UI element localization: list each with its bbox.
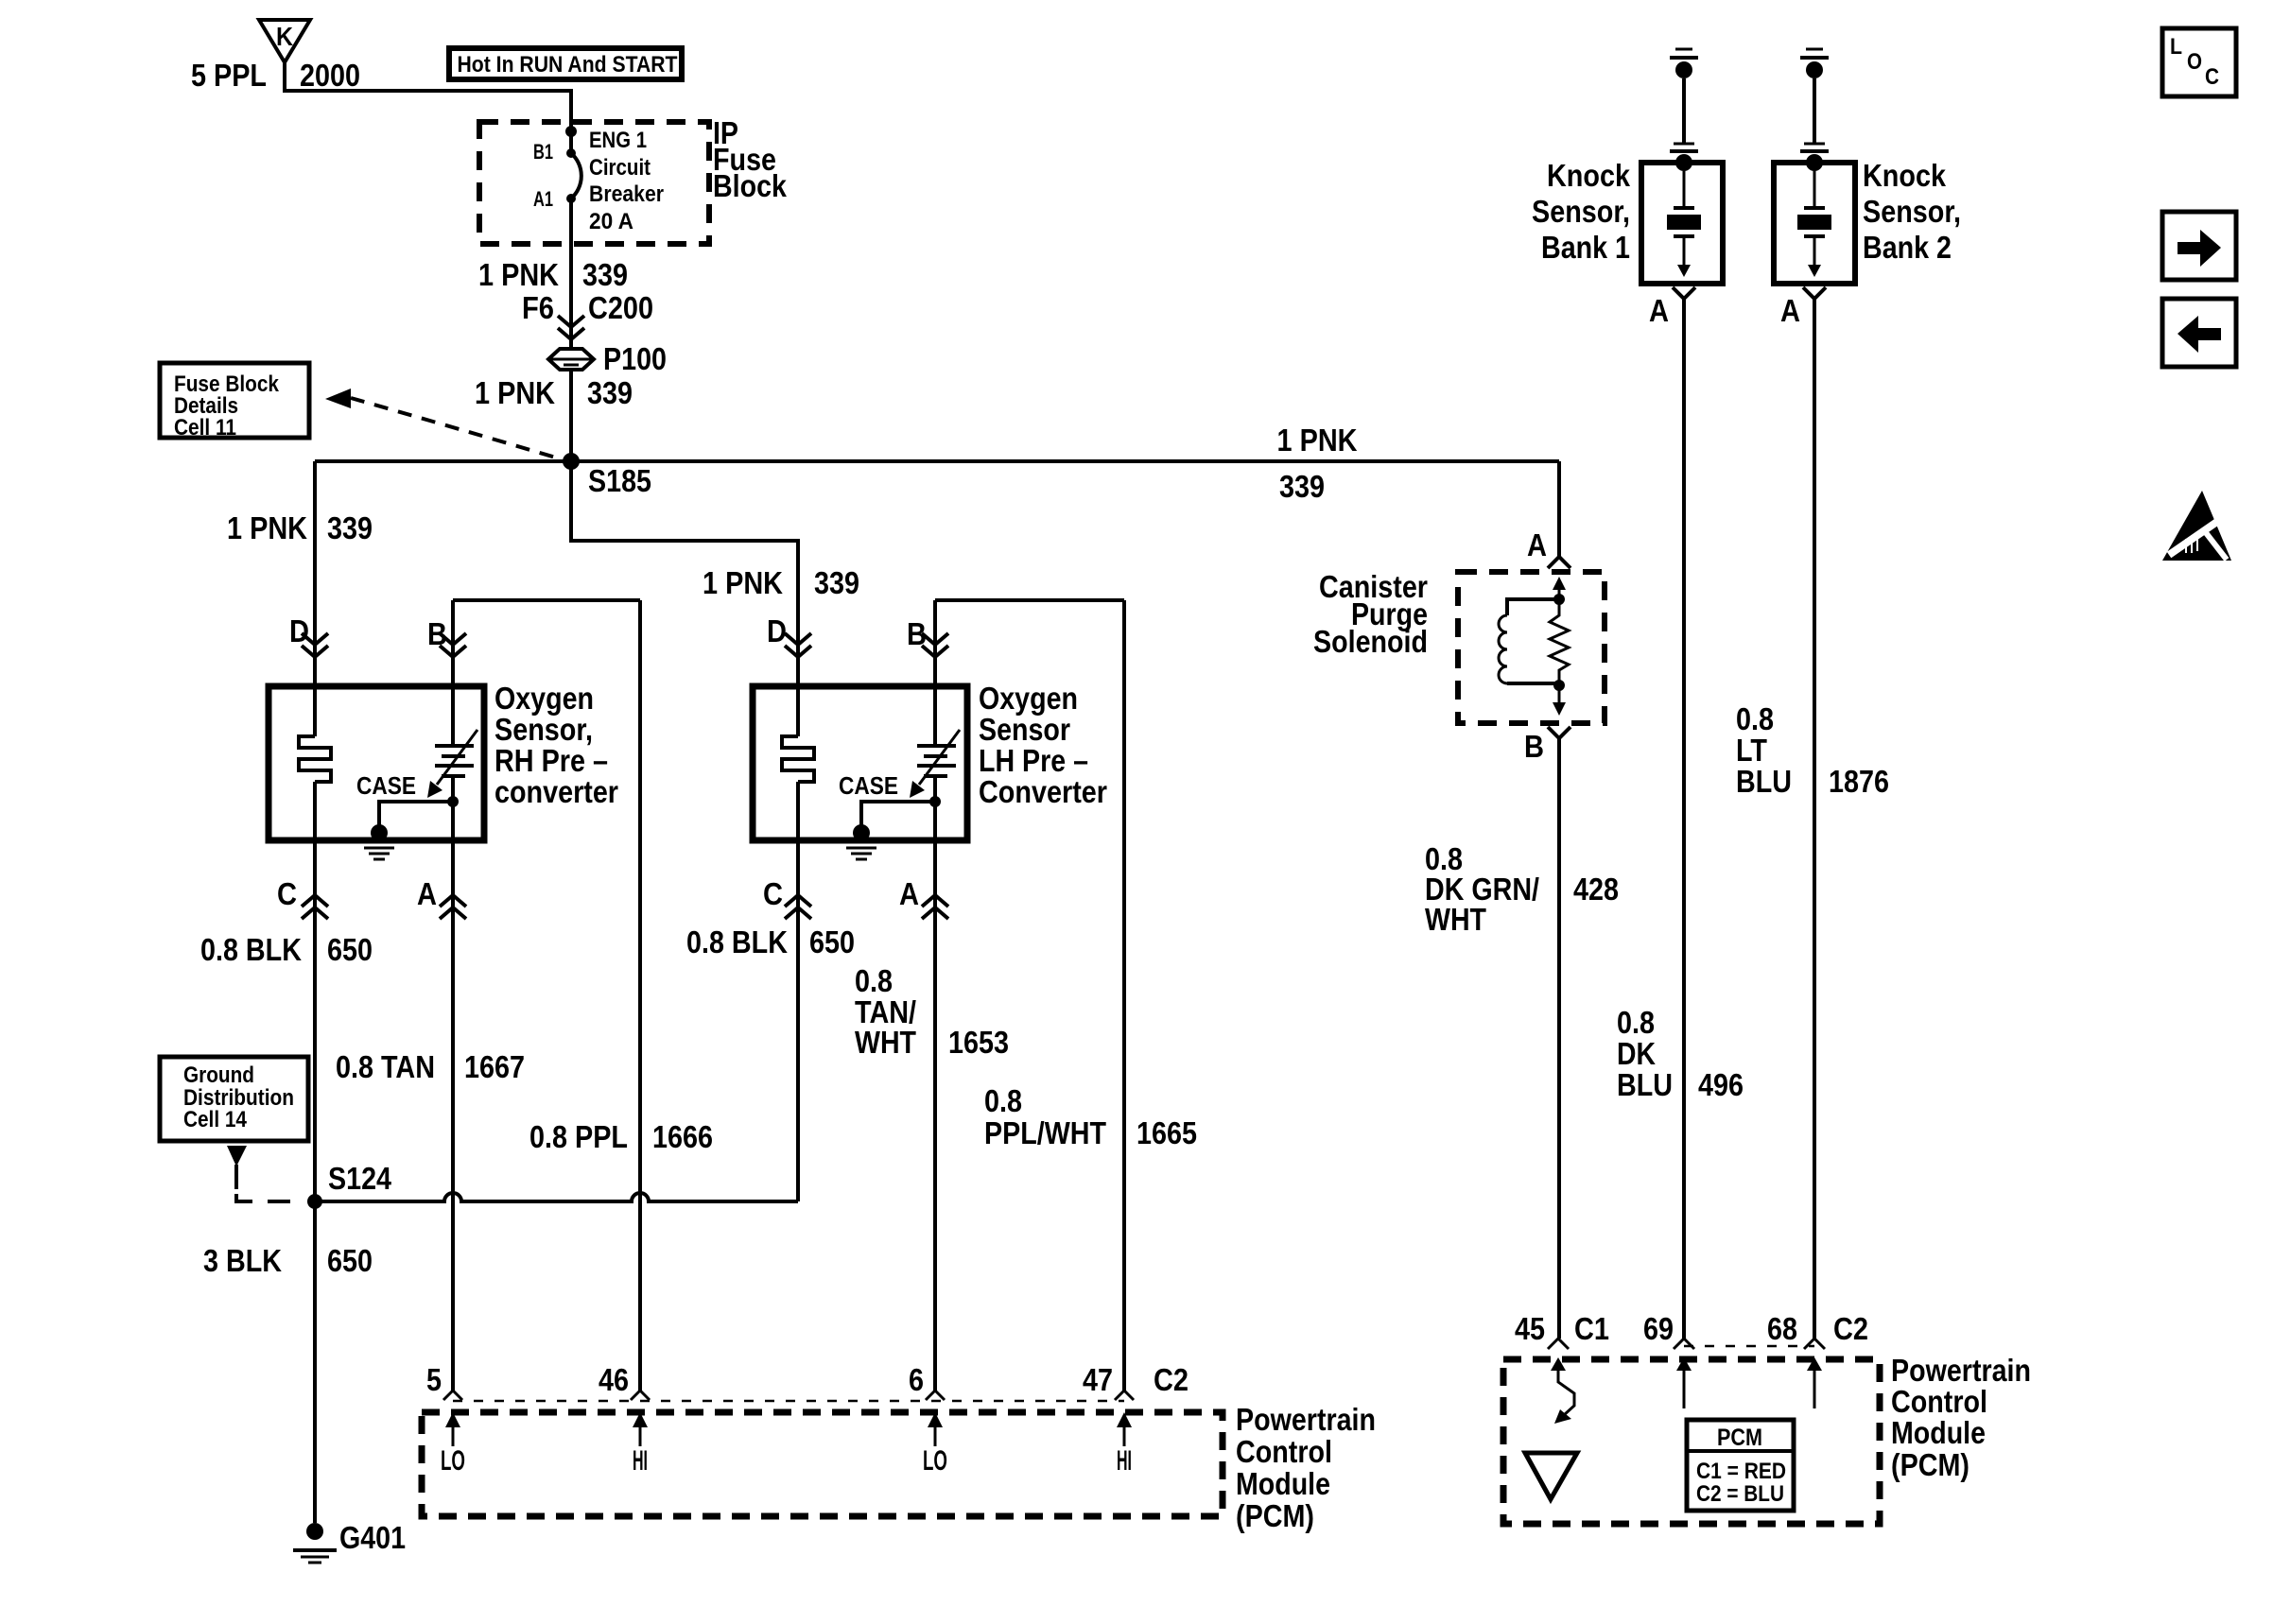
- wire knock sensor 2 to PCM pin 68 (0.8 LT BLU 1876): [1813, 299, 1816, 1339]
- node S185: [563, 453, 651, 498]
- svg-text:Control: Control: [1891, 1384, 1987, 1419]
- svg-text:F6: F6: [522, 290, 554, 325]
- svg-text:(PCM): (PCM): [1236, 1498, 1314, 1533]
- svg-text:5 PPL: 5 PPL: [191, 58, 267, 93]
- wire LH sensor C down to S124: [796, 840, 800, 1201]
- svg-text:428: 428: [1573, 872, 1619, 907]
- pin D connector (LH sensor): [767, 613, 811, 657]
- wire LH sensor B up/over to PCM pin 47 (0.8 PPL/WHT 1665): [935, 600, 1124, 1391]
- svg-text:P100: P100: [603, 341, 667, 376]
- wire ground to knock sensor 1 case: [1682, 78, 1686, 144]
- dashed reference arrow to Fuse Block Details: [325, 389, 565, 460]
- label 0.8 PPL 1666: [529, 1119, 713, 1154]
- svg-text:339: 339: [814, 565, 859, 600]
- Powertrain Control Module dashed box (left): [422, 1412, 1223, 1516]
- svg-text:46: 46: [599, 1362, 629, 1397]
- pin B connector (LH sensor): [907, 616, 948, 657]
- oxygen sensor RH pre-converter box: [269, 686, 484, 840]
- svg-text:1876: 1876: [1829, 764, 1889, 799]
- svg-text:1 PNK: 1 PNK: [703, 565, 783, 600]
- wire solenoid B down to PCM pin 45 (0.8 DK GRN/WHT 428): [1557, 738, 1561, 1339]
- svg-text:Circuit: Circuit: [589, 155, 651, 181]
- wire from K to fuse block: [285, 62, 571, 134]
- svg-text:0.8: 0.8: [1617, 1005, 1655, 1040]
- pin 46 connector at PCM: [599, 1362, 650, 1400]
- svg-text:650: 650: [327, 932, 373, 967]
- label Oxygen Sensor LH Pre-Converter: [979, 681, 1107, 809]
- wire left branch down to RH sensor D: [313, 461, 317, 686]
- label Powertrain Control Module (PCM) left: [1236, 1402, 1376, 1533]
- pin D connector (RH sensor): [289, 613, 328, 657]
- svg-text:Bank 2: Bank 2: [1863, 230, 1952, 265]
- svg-text:0.8 TAN: 0.8 TAN: [336, 1049, 435, 1084]
- svg-text:Hot In RUN And START: Hot In RUN And START: [458, 52, 678, 78]
- label 0.8 BLK 650 (LH): [686, 924, 855, 959]
- label 1 PNK 339 (left branch): [227, 510, 373, 545]
- label 5 PPL 2000: [191, 58, 360, 93]
- heater element (RH sensor): [299, 686, 331, 840]
- svg-text:2000: 2000: [300, 58, 360, 93]
- svg-text:A: A: [1527, 527, 1547, 562]
- svg-text:Oxygen: Oxygen: [495, 681, 594, 716]
- svg-text:Sensor,: Sensor,: [495, 712, 593, 747]
- svg-text:B: B: [427, 616, 447, 651]
- svg-text:G401: G401: [339, 1520, 406, 1555]
- IP fuse block dashed box: [479, 122, 709, 244]
- svg-text:0.8: 0.8: [855, 963, 893, 998]
- power source triangle K (circuit 2000): [259, 20, 310, 62]
- knock sensor 2 piezo element: [1797, 171, 1831, 277]
- connector C2 dashed line (left PCM): [453, 1362, 1189, 1401]
- svg-text:45: 45: [1515, 1311, 1545, 1346]
- svg-text:Powertrain: Powertrain: [1236, 1402, 1376, 1437]
- svg-text:0.8: 0.8: [984, 1083, 1022, 1118]
- svg-text:K: K: [276, 22, 293, 51]
- svg-text:PCM: PCM: [1717, 1425, 1762, 1451]
- pin A connector (knock sensor 1): [1649, 287, 1695, 328]
- oxygen sensor LH pre-converter box: [753, 686, 967, 840]
- pin 5 connector at PCM: [426, 1362, 462, 1400]
- svg-text:A: A: [417, 876, 437, 911]
- label 3 BLK 650: [203, 1243, 373, 1278]
- PCM input arrow HI (pin 47): [1117, 1412, 1132, 1477]
- svg-text:339: 339: [327, 510, 373, 545]
- svg-text:47: 47: [1083, 1362, 1113, 1397]
- svg-text:1653: 1653: [948, 1025, 1009, 1060]
- svg-text:3 BLK: 3 BLK: [203, 1243, 282, 1278]
- wire RH sensor B up/over to PCM pin 46 (0.8 PPL 1666): [453, 600, 640, 1391]
- svg-text:1 PNK: 1 PNK: [1277, 423, 1358, 458]
- knock sensor 2 case entry: [1800, 144, 1829, 171]
- svg-text:Converter: Converter: [979, 774, 1107, 809]
- label 1 PNK 339 (right run to solenoid): [1277, 423, 1358, 504]
- wire ground to knock sensor 2 case: [1813, 78, 1816, 144]
- svg-text:339: 339: [582, 257, 628, 292]
- PCM connector legend box: [1687, 1420, 1794, 1511]
- wire RH sensor C down to S124 and G401: [313, 840, 317, 1523]
- svg-text:A: A: [899, 876, 919, 911]
- svg-text:PPL/WHT: PPL/WHT: [984, 1115, 1106, 1150]
- svg-text:Oxygen: Oxygen: [979, 681, 1078, 716]
- svg-text:339: 339: [1279, 469, 1325, 504]
- svg-text:C2: C2: [1154, 1362, 1189, 1397]
- Ground Distribution Cell 14 box: [160, 1057, 308, 1141]
- svg-text:C: C: [2205, 64, 2219, 90]
- pin labels B1 A1: [533, 140, 553, 211]
- pin C connector (LH sensor): [763, 876, 811, 919]
- svg-text:650: 650: [327, 1243, 373, 1278]
- PCM input arrow (pin 68): [1807, 1357, 1822, 1408]
- svg-text:A: A: [1649, 293, 1669, 328]
- CASE connection and internal ground (LH sensor): [839, 771, 941, 859]
- canister purge solenoid dashed box: [1458, 572, 1605, 723]
- svg-text:0.8 BLK: 0.8 BLK: [686, 924, 788, 959]
- node: solenoid bottom junction: [1553, 680, 1565, 691]
- svg-text:Ground: Ground: [183, 1063, 254, 1088]
- svg-text:1 PNK: 1 PNK: [475, 375, 555, 410]
- svg-text:(PCM): (PCM): [1891, 1447, 1969, 1482]
- wire PNK bus down to canister purge solenoid A: [1557, 461, 1561, 557]
- label 0.8 TAN/WHT 1653: [855, 963, 1009, 1060]
- label Canister Purge Solenoid: [1313, 569, 1428, 659]
- wire LH sensor A down to PCM pin 6 (0.8 TAN/WHT 1653): [933, 840, 937, 1391]
- pin 6 connector at PCM: [909, 1362, 945, 1400]
- svg-text:0.8 PPL: 0.8 PPL: [529, 1119, 628, 1154]
- svg-text:Cell 11: Cell 11: [174, 415, 236, 441]
- pin B connector (solenoid): [1524, 727, 1570, 764]
- svg-text:LO: LO: [441, 1445, 465, 1477]
- circuit breaker ENG 1 20 A: [566, 148, 581, 203]
- label 0.8 TAN 1667: [336, 1049, 525, 1084]
- node S124: [307, 1161, 392, 1209]
- svg-text:68: 68: [1767, 1311, 1797, 1346]
- svg-text:1665: 1665: [1136, 1115, 1197, 1150]
- svg-text:CASE: CASE: [839, 771, 898, 800]
- label Powertrain Control Module (PCM) right: [1891, 1353, 2031, 1482]
- svg-text:Module: Module: [1891, 1415, 1986, 1450]
- solenoid pin arrow (top): [1553, 577, 1566, 599]
- solenoid pin arrow (bottom): [1553, 685, 1566, 716]
- svg-text:Sensor: Sensor: [979, 712, 1070, 747]
- Powertrain Control Module dashed box (right): [1503, 1359, 1880, 1524]
- svg-text:LH Pre –: LH Pre –: [979, 743, 1088, 778]
- svg-text:Control: Control: [1236, 1434, 1332, 1469]
- svg-text:C: C: [763, 876, 783, 911]
- svg-text:LT: LT: [1736, 733, 1767, 768]
- svg-text:C1 = RED: C1 = RED: [1696, 1459, 1786, 1484]
- page-back arrow box: [2162, 299, 2236, 367]
- svg-text:5: 5: [426, 1362, 442, 1397]
- svg-text:Cell 14: Cell 14: [183, 1107, 248, 1132]
- svg-text:HI: HI: [633, 1445, 648, 1477]
- svg-text:D: D: [767, 613, 787, 648]
- svg-text:ENG 1: ENG 1: [589, 128, 647, 153]
- svg-text:B1: B1: [533, 140, 553, 164]
- label 0.8 DK GRN/WHT 428: [1425, 841, 1619, 937]
- svg-text:Solenoid: Solenoid: [1313, 624, 1428, 659]
- PCM driver output triangle: [1525, 1453, 1577, 1499]
- pin 45 connector at PCM (C1): [1515, 1311, 1609, 1349]
- wire RH sensor A down to PCM pin 5 (0.8 TAN 1667): [451, 840, 455, 1391]
- pin 68 connector at PCM (C2): [1767, 1311, 1868, 1349]
- svg-text:C200: C200: [588, 290, 653, 325]
- svg-text:WHT: WHT: [1425, 902, 1486, 937]
- svg-text:1667: 1667: [464, 1049, 525, 1084]
- svg-text:C2 = BLU: C2 = BLU: [1696, 1481, 1784, 1507]
- label 1 PNK 339 (below P100): [475, 375, 633, 410]
- ground G401: [293, 1520, 406, 1563]
- label 0.8 LT BLU 1876: [1736, 701, 1889, 799]
- svg-text:L: L: [2170, 34, 2182, 60]
- svg-text:1 PNK: 1 PNK: [227, 510, 307, 545]
- PCM pin 45 arrow and driver switch: [1551, 1357, 1574, 1424]
- pin 47 connector at PCM: [1083, 1362, 1134, 1400]
- svg-text:HI: HI: [1117, 1445, 1132, 1477]
- knock sensor 1 case entry: [1670, 144, 1698, 171]
- pin A connector (RH sensor): [417, 876, 466, 919]
- svg-text:6: 6: [909, 1362, 924, 1397]
- pin A connector (knock sensor 2): [1780, 287, 1826, 328]
- label Oxygen Sensor, RH Pre-converter: [495, 681, 618, 809]
- svg-text:RH Pre –: RH Pre –: [495, 743, 608, 778]
- knock sensor bank 2 box: [1774, 163, 1855, 284]
- svg-text:496: 496: [1698, 1067, 1744, 1102]
- svg-text:0.8: 0.8: [1736, 701, 1774, 736]
- node: solenoid top junction: [1553, 594, 1565, 605]
- pin A connector (LH sensor): [899, 876, 948, 919]
- wire breaker A1 down to P100: [569, 199, 573, 349]
- node: junction dot inside fuse block: [565, 126, 577, 137]
- ESD sensitive device symbol: [2162, 491, 2231, 561]
- svg-text:Knock: Knock: [1863, 158, 1947, 193]
- svg-text:20 A: 20 A: [589, 209, 633, 234]
- svg-text:WHT: WHT: [855, 1025, 916, 1060]
- svg-text:339: 339: [587, 375, 633, 410]
- svg-text:Breaker: Breaker: [589, 181, 664, 207]
- svg-text:0.8 BLK: 0.8 BLK: [200, 932, 302, 967]
- pass-through grommet P100: [548, 341, 667, 376]
- label IP Fuse Block: [713, 115, 788, 203]
- PCM input arrow (pin 69): [1676, 1357, 1692, 1408]
- solenoid resistor: [1550, 599, 1569, 685]
- connector F6 / C200: [522, 290, 653, 339]
- LOC legend box: [2162, 28, 2236, 96]
- wire S185 down and over to LH sensor D: [571, 461, 798, 686]
- svg-text:Bank 1: Bank 1: [1541, 230, 1630, 265]
- svg-text:Module: Module: [1236, 1466, 1330, 1501]
- heater element (LH sensor): [782, 686, 814, 840]
- solenoid coil: [1499, 599, 1559, 683]
- svg-text:Sensor,: Sensor,: [1532, 194, 1630, 229]
- label ENG 1 Circuit Breaker 20 A: [589, 128, 664, 234]
- svg-text:Block: Block: [713, 168, 788, 203]
- sensing cell (LH sensor): [910, 686, 960, 840]
- pin B connector (RH sensor): [427, 616, 466, 657]
- svg-text:CASE: CASE: [356, 771, 416, 800]
- wire S124 to LH sensor C with hops: [315, 1193, 798, 1201]
- svg-text:D: D: [289, 613, 309, 648]
- PCM input arrow HI (pin 46): [633, 1412, 648, 1477]
- svg-text:1 PNK: 1 PNK: [478, 257, 559, 292]
- CASE connection and internal ground (RH sensor): [356, 771, 459, 859]
- pin A connector (solenoid): [1527, 527, 1570, 568]
- page-forward arrow box: [2162, 212, 2236, 280]
- svg-text:S185: S185: [588, 463, 651, 498]
- label 0.8 PPL/WHT 1665: [984, 1083, 1197, 1150]
- dashed reference arrow to Ground Distribution: [227, 1146, 290, 1201]
- svg-text:O: O: [2187, 49, 2202, 75]
- svg-text:Knock: Knock: [1547, 158, 1631, 193]
- sensing cell (RH sensor): [427, 686, 477, 840]
- svg-text:LO: LO: [923, 1445, 947, 1477]
- svg-text:69: 69: [1643, 1311, 1674, 1346]
- svg-text:C: C: [277, 876, 297, 911]
- svg-text:C1: C1: [1574, 1311, 1609, 1346]
- svg-text:1666: 1666: [652, 1119, 713, 1154]
- svg-text:Sensor,: Sensor,: [1863, 194, 1961, 229]
- svg-text:A1: A1: [533, 187, 553, 211]
- knock sensor 1 piezo element: [1667, 171, 1701, 277]
- svg-text:C2: C2: [1833, 1311, 1868, 1346]
- svg-text:DK: DK: [1617, 1036, 1656, 1071]
- label 0.8 DK BLU 496: [1617, 1005, 1744, 1102]
- svg-text:S124: S124: [328, 1161, 392, 1196]
- label 1 PNK 339 (middle branch): [703, 565, 859, 600]
- svg-text:converter: converter: [495, 774, 618, 809]
- Hot In RUN And START box: [449, 48, 682, 79]
- label 1 PNK 339 (above F6): [478, 257, 628, 292]
- svg-text:BLU: BLU: [1736, 764, 1792, 799]
- svg-text:Powertrain: Powertrain: [1891, 1353, 2031, 1388]
- wire knock sensor 1 to PCM pin 69 (0.8 DK BLU 496): [1682, 299, 1686, 1339]
- svg-text:650: 650: [809, 924, 855, 959]
- knock sensor bank 1 box: [1641, 163, 1723, 284]
- label Knock Sensor, Bank 1: [1532, 158, 1631, 265]
- pin C connector (RH sensor): [277, 876, 328, 919]
- svg-text:A: A: [1780, 293, 1800, 328]
- label 0.8 BLK 650 (RH): [200, 932, 373, 967]
- connector C2 dashed line (right PCM): [1684, 1345, 1814, 1348]
- svg-text:BLU: BLU: [1617, 1067, 1673, 1102]
- svg-text:B: B: [1524, 729, 1544, 764]
- label Knock Sensor, Bank 2: [1863, 158, 1961, 265]
- wire junction to breaker terminal B1: [569, 131, 573, 153]
- wire P100 to S185: [569, 370, 573, 461]
- knock sensor bank 1: top chassis ground: [1670, 49, 1698, 78]
- PCM input arrow LO (pin 5): [441, 1412, 465, 1477]
- knock sensor bank 2: top chassis ground: [1800, 49, 1829, 78]
- PCM input arrow LO (pin 6): [923, 1412, 947, 1477]
- pin 69 connector at PCM: [1643, 1311, 1694, 1349]
- wire PNK bus from S185: [315, 459, 1559, 463]
- Fuse Block Details Cell 11 box: [160, 363, 309, 441]
